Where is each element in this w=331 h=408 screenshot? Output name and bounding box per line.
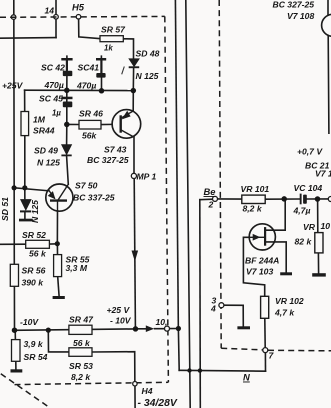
svg-text:10: 10 xyxy=(321,221,331,231)
svg-text:SR 46: SR 46 xyxy=(79,109,103,119)
pin 7 xyxy=(263,348,268,353)
junction MP1 line at rail xyxy=(133,326,139,332)
wire N rail horizontal xyxy=(179,369,265,372)
capacitor SC41 xyxy=(96,58,106,78)
ground under SR54 xyxy=(11,369,23,372)
pin MP1 xyxy=(131,173,136,178)
svg-text:VR 102: VR 102 xyxy=(275,296,304,306)
wire JFET gate lead to VR102 xyxy=(243,237,264,296)
junction SR53 branch xyxy=(46,328,51,333)
svg-text:SR 54: SR 54 xyxy=(24,352,48,362)
arrow on -10V rail toward pin 10 xyxy=(146,325,154,332)
resistor SR44 xyxy=(21,112,29,136)
svg-text:V7 1: V7 1 xyxy=(315,169,331,179)
svg-text:BC 327-25: BC 327-25 xyxy=(273,0,315,10)
svg-text:N 125: N 125 xyxy=(37,158,60,168)
wire -10V rail y330 xyxy=(15,329,179,331)
wire VC104 right to edge xyxy=(307,198,329,200)
dashed diagonal corner cut xyxy=(1,374,50,408)
junction bus A end xyxy=(176,326,181,331)
svg-text:470µ: 470µ xyxy=(76,81,96,91)
svg-text:10,: 10, xyxy=(156,317,168,327)
svg-text:8,2 k: 8,2 k xyxy=(243,204,263,214)
svg-text:14: 14 xyxy=(45,6,55,16)
junction SR52/emitter line xyxy=(55,241,60,246)
bus line A xyxy=(175,0,178,328)
wire Be horizontal to pin 2 xyxy=(200,198,242,201)
capacitor VC104 xyxy=(300,194,307,205)
svg-text:SD 49: SD 49 xyxy=(34,146,58,156)
resistor SR46 xyxy=(79,120,101,129)
dashed right module left boundary xyxy=(219,0,221,348)
resistor SR53 xyxy=(69,348,92,357)
wire pin 3/4 to ground xyxy=(224,305,244,326)
svg-text:1µ: 1µ xyxy=(52,109,61,118)
dashed right boundary of left module xyxy=(165,16,169,382)
svg-text:SR 47: SR 47 xyxy=(69,315,94,325)
svg-text:S7 43: S7 43 xyxy=(104,145,127,155)
wire ST43 collector to MP1 xyxy=(133,137,135,173)
svg-text:+25 V: +25 V xyxy=(107,305,131,315)
svg-text:4,7 k: 4,7 k xyxy=(274,308,295,318)
pin 10 xyxy=(165,326,170,331)
wire SC42 stem xyxy=(66,56,68,90)
junction SC41/+25V xyxy=(99,88,105,94)
junction N rail x line C xyxy=(198,368,202,372)
diode SD48 xyxy=(129,59,140,68)
wire JFET drain up to node xyxy=(265,200,285,230)
svg-text:2: 2 xyxy=(208,200,214,210)
wire SR52 left to edge xyxy=(0,243,26,245)
wire N rail up to node at pin10 xyxy=(177,330,180,370)
resistor SR52 xyxy=(26,240,50,248)
svg-text:SD 51: SD 51 xyxy=(0,197,10,221)
resistor VR102 xyxy=(261,296,269,318)
svg-text:3,3 M: 3,3 M xyxy=(66,263,88,273)
wire MP1 down to -10V rail xyxy=(134,179,135,327)
wire VR104 stubs xyxy=(318,200,319,274)
wire SR52 right to emitter line xyxy=(49,243,57,245)
wire corner down to SR44 xyxy=(24,90,26,111)
svg-text:SR44: SR44 xyxy=(33,126,55,136)
pin 3/4 xyxy=(219,303,224,308)
wire SR53 branch xyxy=(48,330,135,408)
junction base rail at bus xyxy=(12,185,17,190)
svg-text:BF 244A: BF 244A xyxy=(245,256,279,266)
junction VC104/VR104 xyxy=(315,196,321,202)
pin 2 Be xyxy=(213,196,218,201)
svg-text:N 125: N 125 xyxy=(30,200,40,223)
wire horizontal y38 to left edge xyxy=(0,37,56,40)
svg-text:3,9 k: 3,9 k xyxy=(24,339,44,349)
svg-text:+25V: +25V xyxy=(2,81,24,91)
svg-text:H5: H5 xyxy=(72,2,85,13)
svg-text:SR 52: SR 52 xyxy=(22,230,46,240)
svg-text:H4: H4 xyxy=(142,386,153,396)
resistor VR104 xyxy=(315,233,323,253)
wire SD48 cathode to +25V rail xyxy=(132,68,134,111)
svg-text:BC 327-25: BC 327-25 xyxy=(87,155,129,165)
svg-text:4,7µ: 4,7µ xyxy=(293,206,311,216)
svg-text:VR: VR xyxy=(303,222,316,232)
pin at right edge xyxy=(328,197,331,202)
svg-text:470µ: 470µ xyxy=(44,80,64,90)
svg-text:56 k: 56 k xyxy=(29,249,47,259)
junction SD51 tap xyxy=(22,185,27,190)
wire node 14 vertical x56 xyxy=(55,0,57,38)
svg-text:N: N xyxy=(243,372,250,383)
wire SR55 bottom to ground xyxy=(58,277,59,297)
transistor ST43 circle xyxy=(112,110,141,139)
resistor SR56 xyxy=(10,264,18,286)
svg-text:8,2 k: 8,2 k xyxy=(71,372,91,382)
svg-text:1M: 1M xyxy=(33,115,46,125)
resistor SR55 xyxy=(54,255,62,277)
bus line B xyxy=(186,0,190,408)
junction SC42/+25V xyxy=(64,88,70,94)
svg-text:V7 108: V7 108 xyxy=(287,11,314,21)
resistor VR101 xyxy=(242,195,265,203)
svg-text:Be: Be xyxy=(204,186,216,197)
svg-text:4: 4 xyxy=(210,304,216,314)
svg-text:SD 48: SD 48 xyxy=(136,49,160,59)
wire pin 7 down to N rail xyxy=(264,353,266,372)
stray slash mark left of SD48 xyxy=(122,67,125,75)
svg-text:- 34/28V: - 34/28V xyxy=(138,398,178,408)
wire SR46 to ST43 base xyxy=(101,123,112,125)
node 14 pin circle xyxy=(54,14,59,19)
wire SR57 right to SD48 xyxy=(123,39,133,59)
resistor SR47 xyxy=(69,325,92,334)
svg-text:56k: 56k xyxy=(82,131,98,141)
transistor VT108 circle (clipped at right edge) xyxy=(322,14,331,36)
resistor SR57 xyxy=(100,36,123,42)
svg-text:+0,7 V: +0,7 V xyxy=(297,147,323,157)
wire SC45 node to SR46 xyxy=(67,123,79,125)
svg-text:-10V: -10V xyxy=(20,317,39,327)
arrow downward on MP1 line xyxy=(132,251,139,262)
node pin on dashed line at x13.5 xyxy=(11,15,16,20)
pin H4 xyxy=(133,382,137,386)
wire SD51 anode stub xyxy=(24,188,26,219)
dashed top boundary xyxy=(0,15,165,18)
pin circles xyxy=(131,173,331,386)
wire VR101 right to VC104 xyxy=(265,198,300,200)
svg-text:N 125: N 125 xyxy=(136,71,159,81)
capacitor SC42 xyxy=(61,58,72,76)
svg-text:MP 1: MP 1 xyxy=(137,172,157,182)
junction VR101/drain xyxy=(281,196,287,202)
svg-text:56 k: 56 k xyxy=(73,338,91,348)
ground JFET source xyxy=(280,272,292,275)
svg-text:SR 56: SR 56 xyxy=(22,266,46,276)
node H5 pin circle xyxy=(76,14,81,19)
svg-text:SR 53: SR 53 xyxy=(69,361,93,371)
svg-text:S7 50: S7 50 xyxy=(75,181,98,191)
junction SC45/SR46/SD49 xyxy=(64,122,70,128)
wire SC45 stem xyxy=(66,90,68,124)
transistor VT103 JFET circle xyxy=(249,224,275,250)
wire VR102 bottom to pin 7 xyxy=(264,318,266,347)
wire Be corner line C down xyxy=(199,200,202,408)
wire ST50 emitter down xyxy=(56,211,58,244)
diode SD49 xyxy=(61,145,71,157)
junction SD48/+25V/ST43 emitter xyxy=(131,88,137,94)
ground under pin 3/4 wire xyxy=(237,326,250,329)
dashed bottom boundary of left module xyxy=(15,382,169,384)
svg-text:SC 45: SC 45 xyxy=(39,94,63,104)
ground under VR104 xyxy=(312,273,326,276)
junction N rail x bus B xyxy=(187,368,191,372)
wire SD49 chain xyxy=(67,124,69,184)
wire SR55 top stub xyxy=(56,244,58,255)
dashed right module bottom boundary xyxy=(221,348,331,351)
wire SR54 branch xyxy=(14,330,17,369)
ground under SR55 xyxy=(53,296,65,299)
wire base rail y188 to ST50 xyxy=(14,188,49,191)
wire VT108 stubs xyxy=(327,0,330,133)
svg-text:SC41: SC41 xyxy=(78,63,100,73)
svg-text:SR 57: SR 57 xyxy=(101,25,126,35)
wire SR44 bottom to base rail xyxy=(24,136,26,188)
resistor SR54 xyxy=(12,340,21,362)
svg-text:V7 103: V7 103 xyxy=(246,267,273,277)
svg-text:- 10V: - 10V xyxy=(110,316,132,326)
capacitor SC45 xyxy=(62,97,73,108)
svg-text:390 k: 390 k xyxy=(22,278,45,288)
svg-text:1k: 1k xyxy=(104,44,113,53)
wire JFET source to ground xyxy=(265,242,286,273)
svg-text:VR 101: VR 101 xyxy=(241,184,270,194)
junction -10V at bus xyxy=(12,327,18,333)
svg-text:7: 7 xyxy=(269,351,275,361)
svg-text:BC 337-25: BC 337-25 xyxy=(73,193,115,203)
svg-text:82 k: 82 k xyxy=(295,237,313,247)
wire SC41 stem xyxy=(100,56,102,91)
wire H5 lead down and right to SR57 xyxy=(79,19,100,38)
wire left bus vertical x14 xyxy=(13,0,16,330)
svg-text:VC 104: VC 104 xyxy=(294,183,323,193)
svg-text:SC 42: SC 42 xyxy=(41,63,65,73)
wire +25V rail y90 xyxy=(25,89,134,91)
diode SD51 xyxy=(19,200,33,222)
transistor ST50 circle xyxy=(46,184,73,211)
